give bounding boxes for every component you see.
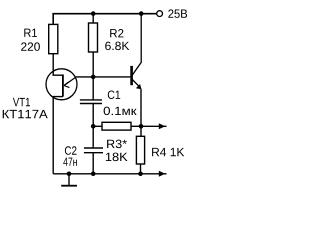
wire R4 top lead (140, 126, 142, 136)
wire R1 bottom to VT1 base2 (53, 54, 63, 75)
label VT1 (13, 98, 30, 106)
wire VT1 base1 to bottom rail (53, 97, 63, 174)
transistor VT1 circle (46, 69, 77, 100)
label 6.8K (105, 42, 129, 51)
resistor R3 (102, 122, 131, 130)
label C1 (108, 91, 120, 100)
output arrow upper (141, 123, 167, 129)
node junction top rail / R2 (91, 11, 96, 16)
wire junction to C2 (92, 126, 94, 148)
output arrow lower (159, 171, 167, 177)
terminal 25V (157, 11, 163, 17)
node junction ground (67, 172, 72, 177)
label R1 (24, 29, 37, 37)
transistor VT1 base bar (62, 74, 64, 96)
wire VT1 emitter to VT2 base (76, 76, 131, 78)
resistor R1 (49, 24, 58, 53)
transistor VT1 emitter arrow (64, 77, 76, 88)
wire R2 bottom lead (92, 52, 94, 77)
wire junction to C1 (92, 77, 94, 100)
label R3* (107, 140, 127, 149)
capacitor C1 (80, 100, 102, 104)
wire C2 to bottom rail (92, 153, 94, 174)
wire R3 to right junction (131, 125, 141, 127)
resistor R4 (136, 136, 144, 164)
ground (61, 174, 77, 186)
node junction R3/R4/output (139, 124, 144, 129)
wire VT2 emitter to junction (140, 89, 142, 127)
node junction C1/R3/C2 (91, 124, 96, 129)
label 25V (168, 9, 187, 18)
wire junction to R3 (93, 125, 102, 127)
resistor R2 (89, 23, 98, 52)
transistor VT2 emitter arrow (132, 79, 142, 89)
wire R4 bottom lead (140, 164, 142, 174)
node junction top rail / VT2 collector (139, 11, 144, 16)
capacitor C2 (84, 148, 103, 153)
wire R2 top lead (92, 14, 94, 23)
label KT117A (3, 110, 48, 118)
node junction C2 / bottom rail (91, 172, 96, 177)
transistor VT2 base bar (130, 66, 133, 85)
wire C1 to R3 junction (92, 104, 94, 127)
node junction R4 / bottom rail (138, 172, 143, 177)
top supply rail wire (53, 14, 156, 25)
label 18K (106, 153, 128, 162)
transistor VT2 collector (132, 14, 141, 76)
label 47n (63, 158, 77, 166)
label C2 (65, 146, 77, 155)
node junction emitter row (91, 75, 96, 80)
label R4 1K (152, 148, 184, 156)
label 0.1uk (104, 107, 137, 116)
bottom rail wire (53, 173, 159, 175)
label R2 (110, 29, 123, 37)
label 220 (21, 42, 40, 51)
